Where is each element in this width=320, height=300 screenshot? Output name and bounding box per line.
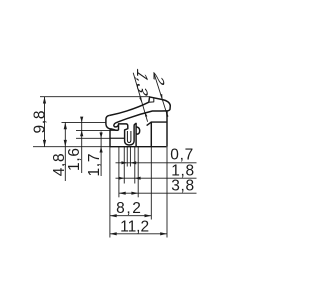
arrow 1,8 left outside — [118, 177, 124, 180]
wire ext line y=122.4 — [62, 121, 107, 123]
arrow 4,8 top — [64, 122, 67, 129]
profile right edge — [166, 111, 168, 147]
wire bottom long extension line y=146.7 — [33, 146, 110, 148]
svg-text:8,2: 8,2 — [116, 200, 142, 217]
wire shelf line 3,8 — [119, 192, 197, 194]
wire slant dim line 2 — [154, 73, 168, 117]
arrow 1,3 upper on slant — [139, 97, 142, 103]
arrow 0,7 right outside — [130, 161, 136, 164]
wire dim line 9,8 — [44, 97, 46, 147]
wire ext vertical x=138.2 — [137, 147, 139, 198]
profile T-block right edge — [135, 123, 137, 147]
profile base bottom edge — [110, 146, 166, 148]
svg-text:0,7: 0,7 — [170, 147, 194, 164]
arrow 3,8 right inside — [131, 192, 138, 195]
arrow 9,8 bottom — [43, 140, 46, 147]
wire dim line 8,2 — [110, 215, 151, 217]
arrow 2 lower on slant — [166, 111, 169, 117]
arrow 11,2 left — [110, 232, 117, 235]
profile base left edge — [110, 129, 112, 147]
wire ext vertical x=130.4 — [129, 147, 131, 167]
wire ext stub y=130.4 — [76, 129, 119, 131]
arrow 2 upper on slant — [160, 94, 162, 100]
arrow 8,2 right — [145, 214, 152, 217]
svg-text:9,8: 9,8 — [31, 110, 48, 134]
arrow 1,3 lower on slant — [144, 111, 147, 117]
arrow 1,7 top outside — [100, 133, 103, 139]
svg-text:3,8: 3,8 — [171, 177, 195, 194]
wire ext vertical x=150.9 right of 8,2 — [150, 147, 152, 220]
wire top extension line y=96.7 — [40, 96, 150, 98]
arrow 1,6 top outside — [80, 117, 83, 123]
wire ext vertical x=124.25 — [123, 147, 125, 184]
wire ext stub y=138.3 — [76, 137, 125, 139]
profile channel curl lip — [136, 127, 140, 134]
arrow 9,8 top — [43, 97, 46, 104]
profile lip lower edge and hook inner curl — [114, 111, 167, 127]
profile lip upper edge — [109, 102, 149, 115]
wire ext vertical x=118.9 — [118, 147, 120, 198]
profile T-block left and top with slot — [119, 123, 137, 145]
wire ext vertical x=134.8 — [134, 147, 136, 184]
wire slant dim line 1,3 — [133, 73, 147, 122]
svg-text:11,2: 11,2 — [120, 218, 149, 235]
wire ext vertical x=166.4 right of 11,2 — [166, 147, 168, 238]
wire ext vertical x=127.25 — [126, 147, 128, 167]
wire dim line 1,7 — [100, 132, 102, 177]
wire dim line 11,2 — [110, 233, 167, 235]
svg-text:1,3: 1,3 — [133, 65, 151, 101]
arrow 11,2 right — [160, 232, 167, 235]
wire shelf line 1,8 — [116, 177, 197, 179]
wire shelf line 0,7 — [116, 162, 197, 164]
profile inner U insert — [127, 131, 130, 143]
profile base top left bit — [116, 129, 119, 131]
arrow 1,8 right outside — [135, 177, 141, 180]
wire dim line 4,8 — [64, 122, 66, 181]
wire dim line 1,6 — [81, 117, 83, 173]
arrow 3,8 left inside — [119, 192, 126, 195]
profile tip internal seam — [149, 98, 154, 103]
profile tip outline — [149, 97, 171, 111]
svg-text:1,7: 1,7 — [86, 153, 103, 177]
arrow 0,7 left outside — [121, 161, 127, 164]
arrow 1,6 bottom outside — [80, 130, 83, 136]
arrow 8,2 left — [110, 214, 117, 217]
profile right block — [151, 122, 167, 147]
wire ext vertical x=109.9 left of 8,2/11,2 — [109, 147, 111, 238]
svg-text:1,6: 1,6 — [66, 147, 83, 171]
profile channel right chamfer — [147, 122, 152, 126]
profile internal seam y=138.2 — [110, 137, 125, 139]
arrow 4,8 bottom — [64, 140, 67, 147]
arrow 1,7 bottom outside — [100, 147, 103, 153]
profile hook outer — [106, 116, 119, 131]
